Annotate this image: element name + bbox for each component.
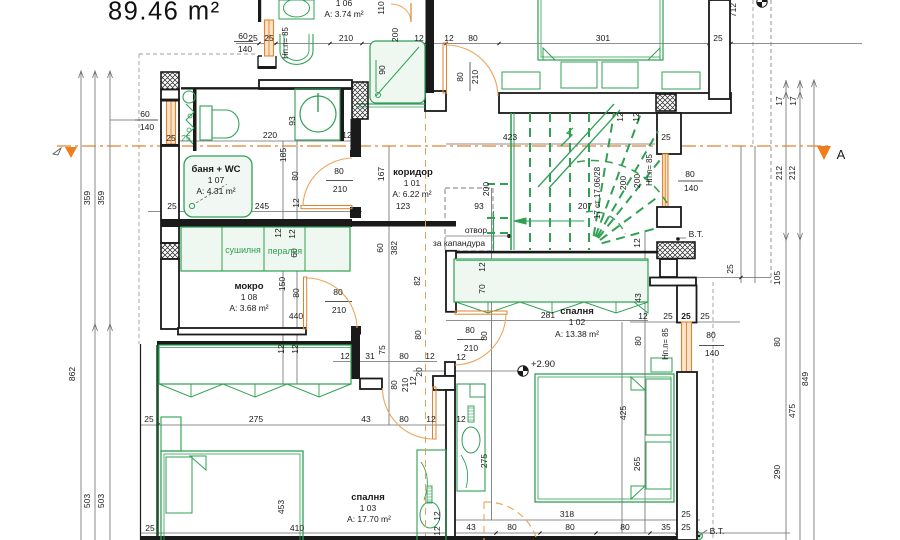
svg-text:1 01: 1 01 [404,178,421,188]
dim vline x283 [282,141,284,384]
svg-text:275: 275 [249,414,263,424]
svg-text:17: 17 [788,96,798,106]
svg-text:17 ст 17.06/28: 17 ст 17.06/28 [593,166,602,219]
wall duct small column [660,259,677,277]
svg-text:17: 17 [774,96,784,106]
svg-text:12: 12 [426,414,436,424]
boundary dashed line top [139,53,258,55]
hatch block left mid [161,243,179,259]
svg-text:1 03: 1 03 [360,503,377,513]
door bedroom103 arc [383,388,433,439]
stair winder tread 3 [598,160,660,238]
svg-text:200: 200 [481,182,491,196]
door small room106 arc [391,4,411,22]
svg-text:140: 140 [705,348,719,358]
svg-text:475: 475 [787,404,797,418]
stair tread v0 [529,113,531,250]
tall cabinet bedroom F1 [417,450,446,540]
svg-text:мокро: мокро [234,281,263,292]
door bedroom102 leaf [455,311,507,314]
svg-text:301: 301 [596,33,610,43]
svg-text:12: 12 [340,351,350,361]
wall left lower inner green [156,345,159,540]
svg-text:пералня: пералня [268,246,302,256]
window bedroom102 right [682,322,692,372]
wall banya sink right x340 [340,89,344,141]
svg-text:60: 60 [140,109,150,119]
orange dashed grid vertical [425,112,427,536]
survey marker top [757,0,767,7]
wall column mokro right x351 [351,334,360,379]
corridor top wall main [499,93,731,113]
svg-text:25: 25 [713,33,723,43]
svg-text:210: 210 [339,33,353,43]
svg-text:спалня: спалня [351,492,385,503]
svg-text:12: 12 [273,228,283,238]
wardrobe bedroom102 zigzag [456,302,648,313]
svg-text:220: 220 [263,130,277,140]
dim line y277 right [697,277,771,279]
bed bedroom103 [161,451,303,540]
stair flight diagonal rail 2 [549,110,620,188]
boundary dashed line right x713 [712,282,714,540]
svg-text:В.Т.: В.Т. [689,229,704,239]
svg-text:440: 440 [289,311,303,321]
svg-text:+2.90: +2.90 [531,359,555,370]
svg-text:A: 4.31 m²: A: 4.31 m² [196,186,235,196]
svg-text:425: 425 [618,406,628,420]
door mokro arc [307,278,357,328]
svg-text:25: 25 [166,133,176,143]
svg-text:25: 25 [144,414,154,424]
svg-text:1 02: 1 02 [569,317,586,327]
boundary dashed line right x770 [770,0,772,283]
stair winder tread 0 [594,113,614,236]
wardrobe102 fold corner [634,302,648,313]
dimension line left x95 [94,71,96,540]
dim vline x297 [296,141,298,384]
svg-text:43: 43 [361,414,371,424]
dim line y322 right [630,321,740,323]
hatch block left top [161,72,179,90]
svg-text:862: 862 [67,367,77,381]
toilet room106 [280,34,313,64]
svg-text:1 08: 1 08 [241,292,258,302]
bottom dim line y520 [448,519,700,521]
stair walk line up arrow [561,128,573,146]
svg-text:12: 12 [290,344,300,354]
svg-text:210: 210 [464,343,478,353]
svg-text:423: 423 [503,132,517,142]
svg-text:245: 245 [255,201,269,211]
cabinet above bed102 [651,358,672,372]
door dashed bottom arc [484,502,537,540]
svg-text:12: 12 [632,238,642,248]
corridor top wall band [425,91,446,111]
svg-text:210: 210 [332,305,346,315]
pillow bedroom102 b [646,442,671,489]
dashed rect otvor za kapandura [445,188,493,251]
wardrobe zigzag ticks [190,384,192,397]
svg-text:35: 35 [661,522,671,532]
stair tread v3 [588,113,590,250]
sink banya box [295,89,340,140]
hatch block corridor top [656,94,676,111]
wardrobe102 zigzag ticks [487,302,489,313]
stair winder tread 4 [600,196,659,240]
svg-text:Нп.п= 85: Нп.п= 85 [645,154,654,186]
svg-text:80: 80 [413,330,423,340]
wall party column upper [446,251,456,312]
svg-text:12: 12 [408,376,418,386]
dim 80/140 top right [678,180,703,182]
svg-text:167: 167 [376,167,386,181]
window left banya [167,101,176,144]
dim line x755 [754,146,756,283]
toilet banya [200,106,212,140]
shower side line [375,60,377,92]
svg-text:80: 80 [399,414,409,424]
svg-text:баня + WC: баня + WC [191,164,240,175]
svg-text:89.46 m²: 89.46 m² [108,0,221,26]
svg-text:25: 25 [663,311,673,321]
pillow bedroom102 a [646,379,671,435]
svg-text:503: 503 [96,494,106,508]
stair winder tread 2 [597,131,658,237]
svg-text:80: 80 [468,33,478,43]
door bedroom103 leaf [433,387,437,439]
svg-text:318: 318 [560,509,574,519]
stair tread v2 [569,113,571,250]
svg-text:12: 12 [477,262,487,272]
banya internal dim line y141 [161,140,352,142]
wall stub y378 [360,379,382,390]
bed bedroom102 [535,374,674,502]
svg-text:25: 25 [145,523,155,533]
stair flight diagonal rail 1 [538,104,614,187]
wall right column top [709,0,730,99]
svg-text:80: 80 [685,169,695,179]
svg-text:12: 12 [276,344,286,354]
door banya leaf [301,206,352,209]
bed top fold right [648,48,660,60]
svg-text:265: 265 [632,457,642,471]
svg-text:140: 140 [684,183,698,193]
svg-text:93: 93 [287,116,297,126]
bed top fold left [543,48,555,60]
svg-text:25: 25 [264,33,274,43]
section marker right [817,146,831,160]
hatch block stairs bottom right [657,242,695,259]
svg-text:359: 359 [82,191,92,205]
svg-text:210: 210 [333,184,347,194]
svg-text:150: 150 [277,277,287,291]
sink banya circle [300,96,336,132]
dim 80/210 rot door top [469,62,471,91]
wall mokro bottom right jamb [351,326,361,335]
boundary dashed line left [138,54,140,344]
wall corner below window 106 [258,56,276,68]
sink room106 top [279,0,314,19]
dimension line right x814 [813,80,815,540]
hatch block shower [352,82,368,119]
wall room106 right x426 [426,0,435,93]
wall top-left vertical x259 [258,0,261,22]
section marker left [65,147,77,158]
stair walk arc dashed [577,161,667,203]
bathtub banya [184,156,252,217]
svg-text:110: 110 [376,1,386,15]
stair tread v1 [549,113,551,250]
svg-text:25: 25 [248,33,258,43]
svg-text:А: А [837,147,846,162]
wall mokro top band [161,219,352,227]
svg-text:80: 80 [565,522,575,532]
svg-text:сушилня: сушилня [225,245,261,255]
svg-text:123: 123 [396,201,410,211]
svg-text:25: 25 [681,311,691,321]
svg-text:12: 12 [456,352,466,362]
dim vline x622 [621,322,623,533]
svg-text:453: 453 [276,500,286,514]
pillow bedroom103 [166,457,192,513]
svg-text:Нп.п= 85: Нп.п= 85 [281,27,290,59]
svg-text:210: 210 [470,70,480,84]
bed102 fold bottom [631,486,645,499]
shower room106 [370,41,425,103]
wall corridor bottom band [352,221,456,227]
svg-text:20: 20 [414,367,424,377]
tall cabinet corridor F2 [457,384,485,491]
bathtub leader line [196,184,227,203]
stair walk line arrow left [514,220,584,222]
svg-text:80: 80 [706,330,716,340]
pillow top room right [602,62,638,88]
stair left stringer green [493,211,495,251]
svg-text:80: 80 [334,166,344,176]
bed103 fold [190,456,206,470]
svg-text:200: 200 [390,28,400,42]
wall pier below shower hatch [351,119,362,157]
svg-text:12: 12 [287,229,297,239]
svg-text:382: 382 [389,241,399,255]
sushilnya pearalnya unit [181,227,350,271]
svg-text:Нп.п= 85: Нп.п= 85 [661,328,670,360]
window stairs right [663,154,669,207]
svg-text:140: 140 [238,44,252,54]
dim vline x491 [491,188,493,520]
svg-text:25: 25 [681,509,691,519]
svg-text:A: 3.74 m²: A: 3.74 m² [324,9,363,19]
svg-text:212: 212 [787,166,797,180]
svg-text:75: 75 [377,345,387,355]
top dimension line y43 [236,43,862,45]
svg-text:A: 17.70 m²: A: 17.70 m² [347,514,391,524]
svg-text:80: 80 [507,522,517,532]
wall corridor left jamb top [350,150,361,157]
wardrobe bedroom103 [159,345,351,384]
svg-text:503: 503 [82,494,92,508]
door top room arc [447,45,499,96]
door banya arc [303,158,352,206]
door small room106 leaf [410,3,412,22]
dimension line left x81 [80,71,82,540]
svg-text:25: 25 [661,132,671,142]
svg-text:60: 60 [238,31,248,41]
svg-text:80: 80 [479,331,489,341]
svg-text:281: 281 [541,310,555,320]
svg-text:82: 82 [412,276,422,286]
svg-text:80: 80 [291,288,301,298]
dimension line right x786 [785,80,787,540]
svg-text:207: 207 [578,201,592,211]
svg-text:25: 25 [681,522,691,532]
shower drain [376,93,381,98]
stair winder tread 5 [602,228,657,243]
svg-text:43: 43 [466,522,476,532]
svg-text:80: 80 [333,287,343,297]
svg-text:80: 80 [620,522,630,532]
svg-text:1 07: 1 07 [208,175,225,185]
wall bedroom103 top [157,341,353,345]
svg-text:12: 12 [432,526,442,536]
wall outer left column [161,99,179,146]
survey marker level [518,366,528,376]
svg-text:80: 80 [633,336,643,346]
svg-text:отвор: отвор [465,225,488,235]
svg-text:849: 849 [800,372,810,386]
dim line y425 [140,424,455,426]
svg-text:410: 410 [290,523,304,533]
dim 423 [446,143,655,145]
dim 281 [446,320,648,322]
stairs solid stringer [510,113,512,250]
svg-text:93: 93 [474,201,484,211]
shower diagonal [376,47,419,96]
shower bottom line [356,103,425,105]
nightstand top right [662,72,700,89]
wall piece toilet partition [193,89,197,151]
svg-text:80: 80 [389,380,399,390]
pillow top room left [561,62,597,88]
boundary dashed line right x753 [752,0,754,146]
label VT top [676,237,686,239]
bed top room [538,0,663,60]
wardrobe bedroom103 zigzag [159,384,351,397]
wall left lower thin x140 [140,344,142,540]
wall stairs right pier1 [657,113,681,154]
svg-text:за капандура: за капандура [433,238,485,248]
wall box below left hatch [161,90,179,100]
svg-text:12: 12 [615,112,625,122]
cabinet bedroom103 top [161,417,181,451]
svg-text:12: 12 [631,112,641,122]
dim 80/140 bedroom window [699,345,724,347]
svg-text:12: 12 [444,33,454,43]
svg-text:80: 80 [399,351,409,361]
svg-text:275: 275 [479,454,489,468]
dim line y211 banya [148,211,362,213]
svg-text:200: 200 [632,174,642,188]
svg-text:12: 12 [456,414,466,424]
stair dashed tread left a [487,183,511,185]
svg-text:В.Т.: В.Т. [710,526,725,536]
svg-text:спалня: спалня [560,306,594,317]
door label 80/210 bedroom102 [457,339,484,341]
svg-text:80: 80 [290,171,300,181]
dim line y371 room102 [413,370,518,372]
stair dashed tread left b [487,217,511,219]
dim line y361 [333,361,437,363]
svg-text:212: 212 [774,166,784,180]
svg-text:80: 80 [465,325,475,335]
door mokro leaf [304,277,307,329]
dim vline x645 [644,230,646,533]
wall bedroom102 right top piece [677,286,697,323]
nightstand top left [502,72,540,89]
svg-text:70: 70 [477,284,487,294]
svg-text:12: 12 [291,198,301,208]
svg-text:25: 25 [181,133,191,143]
dimension line right x800 [799,80,801,540]
door dashed bottom leaf [483,502,485,540]
svg-text:105: 105 [772,271,782,285]
bed102 fold top [631,377,645,390]
svg-text:60: 60 [375,243,385,253]
dim 60/140 left window [135,119,158,121]
label VT bottom [700,530,707,535]
svg-text:A: 3.68 m²: A: 3.68 m² [229,303,268,313]
svg-text:31: 31 [365,351,375,361]
svg-text:25: 25 [167,201,177,211]
wall party jamb mid [445,362,455,376]
wall duct band [650,278,696,286]
radiator banya [183,91,195,103]
svg-text:12: 12 [432,511,442,521]
svg-text:25: 25 [725,264,735,274]
wall bottom band [140,536,697,540]
window room106 left [265,20,274,56]
svg-text:A: 13.38 m²: A: 13.38 m² [555,329,599,339]
door bedroom102 arc [455,315,506,366]
dimension line left x110 [109,71,111,540]
stair small arc dashed [586,211,625,234]
svg-text:80: 80 [455,72,465,82]
door label 80/210 mokro [325,301,352,303]
svg-text:25: 25 [700,311,710,321]
svg-text:A: 6.22 m²: A: 6.22 m² [392,189,431,199]
svg-text:12: 12 [638,311,648,321]
door label 80/210 corridor [326,180,353,182]
stair winder tread 1 [595,113,641,237]
svg-text:185: 185 [278,148,288,162]
door top room leaf [443,43,447,93]
svg-text:90: 90 [377,65,387,75]
wall banya top y89 [259,80,352,89]
wall corridor left jamb bottom [350,207,361,218]
svg-text:712: 712 [728,3,738,17]
dim vline x389 [388,146,390,425]
wall party step [433,376,455,390]
wall stairs right pier2 [657,207,681,227]
leader dot otvor [507,234,511,238]
svg-text:1 06: 1 06 [336,0,353,8]
svg-text:12: 12 [342,130,352,140]
VT green circle [696,533,703,540]
wall left column low [161,259,179,329]
svg-text:коридор: коридор [393,167,433,178]
svg-text:359: 359 [96,191,106,205]
